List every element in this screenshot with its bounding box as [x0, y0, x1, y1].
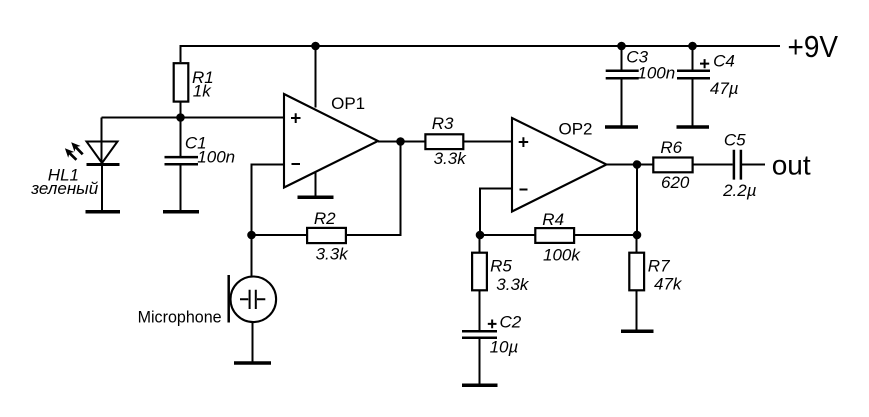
ground C1: [163, 210, 199, 214]
microphone circle: [231, 277, 277, 323]
svg-text:100n: 100n: [197, 148, 235, 167]
junction node at C3: [617, 42, 626, 51]
junction node at C4: [688, 42, 697, 51]
wire C5 to out: [742, 164, 765, 166]
svg-text:C4: C4: [713, 52, 735, 71]
svg-text:2.2µ: 2.2µ: [722, 181, 757, 200]
resistor R5 body: [472, 253, 487, 291]
capacitor C4 plates: [677, 71, 710, 79]
wire OP1 supply stem: [315, 46, 317, 108]
junction node C (R4/R5): [476, 231, 485, 240]
svg-text:100n: 100n: [637, 64, 675, 83]
svg-text:OP2: OP2: [559, 120, 593, 139]
wire C4 top lead: [692, 46, 694, 70]
wire mic top: [251, 235, 253, 277]
wire R3 right lead to OP2: [463, 141, 512, 143]
svg-text:47µ: 47µ: [710, 79, 739, 98]
ground R7: [621, 330, 654, 334]
svg-text:C2: C2: [500, 313, 522, 332]
ground LED: [86, 210, 121, 214]
svg-text:3.3k: 3.3k: [496, 275, 530, 294]
wire R2 right lead up to output: [347, 142, 401, 236]
capacitor C4 plus sign: [700, 59, 709, 68]
op-amp OP1 minus input symbol: [292, 163, 301, 165]
resistor R1 body: [174, 63, 189, 101]
LED HL1 triangle: [87, 142, 118, 164]
wire output node down: [636, 165, 638, 236]
capacitor C1 plates: [165, 157, 199, 164]
resistor R3 body: [425, 134, 463, 149]
wire mic bottom: [252, 322, 254, 362]
wire OP1 output: [378, 141, 425, 143]
wire +9V rail: [181, 46, 781, 62]
LED light arrow 2: [65, 148, 77, 160]
op-amp OP2 plus input symbol: [519, 137, 529, 147]
resistor R6 body: [653, 158, 692, 173]
capacitor C5 plates: [734, 150, 741, 180]
resistor R4 body: [535, 228, 574, 243]
wire R7 top lead: [636, 235, 638, 253]
svg-text:+9V: +9V: [788, 29, 839, 64]
op-amp U1 triangle OP1: [284, 94, 378, 188]
wire node A horizontal (LED to OP1 + input): [102, 117, 285, 119]
wire OP2 inverting input to node C: [480, 189, 512, 236]
capacitor C2 plates: [462, 331, 497, 338]
wire OP1 inverting input to node B: [252, 165, 285, 236]
svg-text:C5: C5: [724, 130, 746, 149]
wire R1 bottom lead: [180, 103, 182, 118]
svg-text:R2: R2: [314, 209, 336, 228]
microphone diaphragm line: [227, 275, 230, 323]
wire LED cathode lead: [101, 166, 103, 210]
svg-text:Microphone: Microphone: [138, 308, 222, 327]
microphone internal capacitor: [240, 290, 265, 309]
ground OP1: [298, 196, 334, 200]
svg-text:OP1: OP1: [331, 94, 365, 113]
wire C3 top lead: [621, 46, 623, 70]
wire R4 right lead: [575, 234, 638, 236]
resistor R7 body: [629, 253, 644, 291]
wire C1 bottom lead: [180, 165, 182, 210]
capacitor C2 plus sign: [488, 320, 497, 329]
ground C3: [605, 125, 638, 129]
ground microphone: [234, 361, 271, 365]
junction node A (R1/C1/LED): [176, 113, 185, 122]
svg-text:1k: 1k: [193, 82, 212, 101]
wire R7 bottom lead: [636, 291, 638, 331]
svg-text:R5: R5: [490, 256, 512, 275]
ground C4: [677, 125, 710, 129]
junction node OP2 output: [633, 160, 642, 169]
wire C3 bottom lead: [621, 79, 623, 126]
wire R2 left lead: [252, 234, 308, 236]
wire C1 top lead: [180, 118, 182, 157]
svg-text:R4: R4: [542, 210, 564, 229]
svg-text:47k: 47k: [654, 275, 683, 294]
wire C2 bottom lead: [479, 339, 481, 384]
op-amp U2 triangle OP2: [512, 118, 607, 212]
svg-text:зеленый: зеленый: [30, 179, 99, 198]
wire R5 bottom lead: [479, 291, 481, 331]
capacitor C3 plates: [606, 71, 639, 79]
svg-text:620: 620: [661, 173, 690, 192]
svg-text:3.3k: 3.3k: [316, 244, 350, 263]
svg-text:out: out: [772, 150, 811, 181]
wire R4 left lead: [480, 234, 535, 236]
wire R6 right lead: [693, 164, 733, 166]
resistor R2 body: [307, 228, 346, 243]
LED light arrow 1: [71, 142, 83, 154]
op-amp OP1 plus input symbol: [291, 113, 301, 123]
ground C2: [462, 383, 498, 387]
svg-text:100k: 100k: [543, 245, 581, 264]
wire OP1 ground stem: [315, 172, 317, 197]
svg-text:R3: R3: [432, 114, 454, 133]
junction node OP1 output: [396, 137, 405, 146]
svg-text:R6: R6: [660, 138, 682, 157]
svg-text:3.3k: 3.3k: [434, 149, 468, 168]
svg-text:10µ: 10µ: [490, 338, 519, 357]
junction node at OP1 supply: [311, 42, 320, 51]
wire C4 bottom lead: [692, 79, 694, 126]
LED cathode bar: [87, 163, 120, 166]
wire LED anode lead: [101, 118, 103, 165]
wire OP2 output: [607, 164, 655, 166]
svg-text:R7: R7: [648, 257, 670, 276]
wire R5 top lead: [479, 235, 481, 253]
op-amp OP2 minus input symbol: [520, 189, 528, 191]
junction node D (R4/R7): [633, 231, 642, 240]
junction node B (R2/mic): [247, 231, 256, 240]
